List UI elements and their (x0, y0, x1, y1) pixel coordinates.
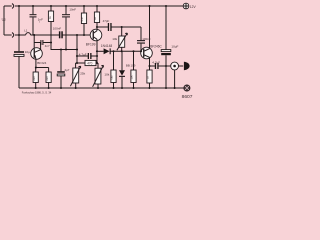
svg-text:4µ7: 4µ7 (64, 68, 69, 72)
svg-text:10µ: 10µ (25, 50, 30, 54)
svg-text:Funkschau 1986, 5, S. 34: Funkschau 1986, 5, S. 34 (22, 90, 52, 94)
svg-text:BF199: BF199 (86, 42, 96, 46)
svg-text:10k: 10k (112, 37, 117, 41)
svg-text:4,7µF: 4,7µF (79, 52, 87, 56)
svg-text:100nF: 100nF (142, 37, 151, 41)
svg-text:4,7µF: 4,7µF (152, 60, 160, 64)
svg-text:100nF: 100nF (53, 26, 62, 30)
svg-text:25k: 25k (80, 71, 85, 75)
svg-text:470: 470 (87, 61, 92, 65)
svg-text:10k: 10k (130, 75, 134, 80)
svg-text:47pF: 47pF (103, 19, 110, 23)
svg-text:Ue: Ue (2, 17, 6, 21)
svg-text:8607: 8607 (182, 94, 193, 100)
svg-text:220: 220 (45, 76, 49, 81)
svg-text:*: * (39, 21, 40, 25)
svg-text:4n7: 4n7 (45, 44, 50, 48)
svg-text:12V: 12V (190, 5, 197, 9)
svg-text:BF324: BF324 (37, 61, 46, 65)
svg-text:10µF: 10µF (171, 45, 178, 49)
svg-text:6k8: 6k8 (110, 75, 114, 80)
svg-text:1N4148: 1N4148 (101, 44, 113, 48)
svg-text:L1: L1 (24, 29, 28, 33)
svg-text:47k: 47k (80, 17, 84, 22)
svg-text:10nF: 10nF (69, 7, 76, 11)
svg-text:BF246C: BF246C (150, 44, 162, 48)
svg-text:10k: 10k (104, 73, 109, 77)
svg-text:220: 220 (32, 76, 36, 81)
svg-text:BB 109: BB 109 (126, 64, 136, 68)
